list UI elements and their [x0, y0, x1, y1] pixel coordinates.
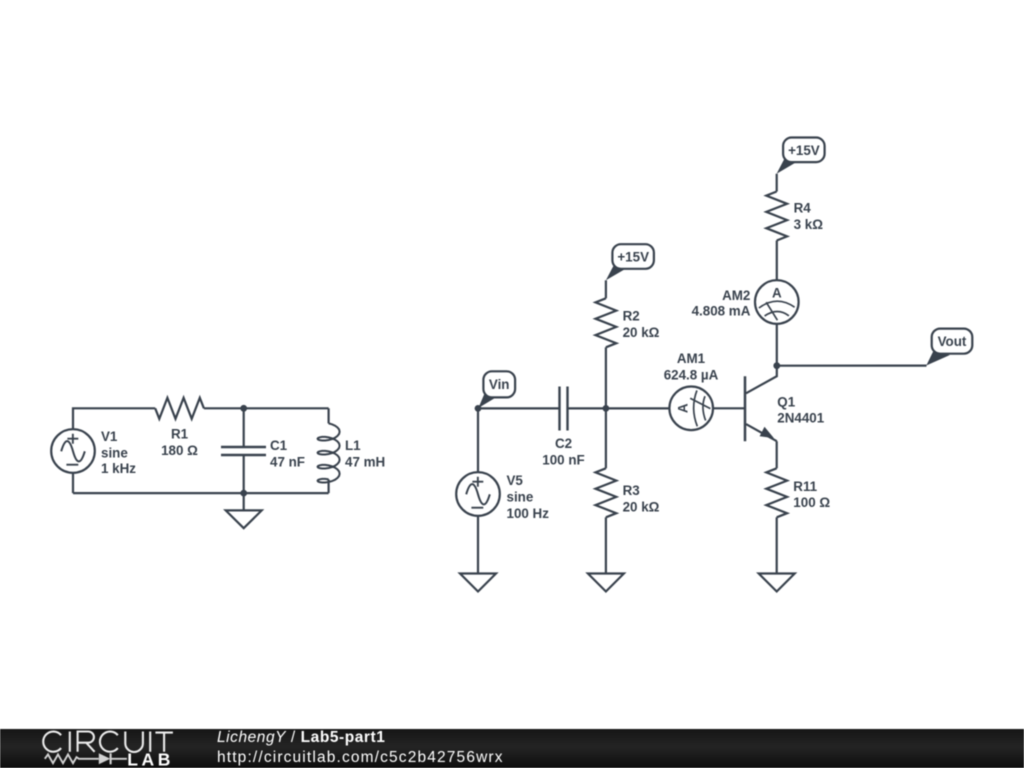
svg-text:R4: R4 [794, 201, 812, 216]
ground (R3) [588, 574, 624, 592]
label C2 value [542, 436, 584, 468]
svg-text:100 Ω: 100 Ω [793, 495, 830, 510]
label Q1 value [777, 395, 824, 426]
label V5 value [507, 473, 550, 521]
voltage source V1 [51, 429, 95, 473]
svg-text:A: A [676, 403, 691, 413]
wire V5 bottom [477, 516, 479, 574]
wire junction to R3 [605, 408, 607, 468]
footer bar [0, 729, 1024, 768]
svg-text:R2: R2 [623, 309, 640, 324]
wire collector to AM2 [776, 324, 778, 366]
label R3 value [623, 483, 660, 515]
resistor R4 [766, 192, 787, 241]
wire top-left V1 to R1 [73, 408, 155, 429]
node bottom junction dot [240, 490, 247, 497]
svg-text:R1: R1 [171, 427, 189, 442]
svg-text:LAB: LAB [127, 750, 174, 768]
wire R3 to ground [605, 517, 607, 573]
svg-text:R11: R11 [793, 479, 817, 494]
label L1 value [345, 438, 385, 470]
net flag Vout [926, 329, 972, 366]
svg-text:C1: C1 [270, 438, 288, 453]
voltage source V5 [456, 472, 500, 516]
svg-text:4.808 mA: 4.808 mA [692, 304, 751, 319]
ground (left circuit) [226, 493, 262, 528]
resistor R11 [766, 468, 787, 517]
svg-text:Vin: Vin [489, 377, 510, 392]
net flag Vin [478, 371, 515, 408]
inductor L1 [318, 408, 340, 493]
svg-text:V5: V5 [507, 473, 524, 488]
node Vin dot [475, 405, 482, 412]
svg-text:C2: C2 [555, 436, 572, 451]
svg-text:20 kΩ: 20 kΩ [623, 500, 660, 515]
svg-text:AM2: AM2 [722, 288, 750, 303]
svg-text:AM1: AM1 [677, 351, 706, 366]
CircuitLab logo wordmark [43, 732, 174, 768]
label C1 value [270, 438, 305, 470]
wire AM2 to R4 [776, 174, 778, 281]
logo resistor-diode squiggle [45, 753, 127, 764]
svg-text:R3: R3 [623, 483, 640, 498]
svg-text:sine: sine [507, 490, 534, 505]
svg-text:180 Ω: 180 Ω [161, 443, 198, 458]
label AM1 value [664, 351, 719, 382]
svg-text:A: A [772, 286, 782, 301]
svg-text:+15V: +15V [617, 250, 649, 265]
svg-text:Q1: Q1 [777, 395, 795, 410]
svg-text:47 mH: 47 mH [345, 455, 385, 470]
node collector junction dot [773, 362, 780, 369]
ammeter AM1 [669, 387, 713, 431]
label R1 value [161, 427, 198, 459]
svg-text:Vout: Vout [938, 334, 967, 349]
capacitor C1 [221, 408, 266, 493]
label R2 value [623, 309, 660, 341]
label V1 value [101, 429, 136, 476]
wire Vin to C2 [478, 407, 560, 409]
wire R1 to L1 top [204, 407, 329, 409]
svg-text:2N4401: 2N4401 [777, 410, 824, 425]
wire V5 top [477, 408, 479, 472]
svg-text:L1: L1 [345, 438, 361, 453]
wire flag to R2 [605, 280, 607, 298]
svg-text:47 nF: 47 nF [270, 455, 305, 470]
wire R11 to ground [776, 517, 778, 573]
wire junction to AM1 [606, 407, 670, 409]
resistor R3 [596, 468, 617, 517]
resistor R2 [596, 298, 617, 347]
node top junction dot [240, 405, 247, 412]
svg-text:+15V: +15V [788, 143, 820, 158]
wire AM1 to Q1 base [713, 407, 745, 409]
wire bottom rail [73, 492, 329, 494]
wire collector to Vout [777, 365, 927, 367]
svg-text:3 kΩ: 3 kΩ [794, 217, 824, 232]
wire V1 bottom [72, 473, 74, 493]
svg-text:sine: sine [101, 446, 128, 461]
label R11 value [793, 479, 830, 510]
svg-text:100 nF: 100 nF [542, 453, 584, 468]
capacitor C2 [560, 387, 606, 431]
ammeter AM2 [755, 280, 799, 324]
svg-text:1 kHz: 1 kHz [101, 461, 136, 476]
svg-text:V1: V1 [101, 429, 118, 444]
ground (R11) [759, 574, 795, 592]
svg-text:20 kΩ: 20 kΩ [623, 325, 660, 340]
transistor Q1 [745, 366, 777, 442]
power flag +15V (right) [777, 138, 825, 174]
wire R2 to junction [605, 347, 607, 408]
svg-text:100 Hz: 100 Hz [507, 506, 550, 521]
label AM2 value [692, 288, 751, 319]
ground (V5) [460, 574, 496, 592]
label R4 value [794, 201, 824, 233]
wire emitter to R11 [776, 441, 778, 468]
node C2-R2-R3 junction dot [603, 405, 610, 412]
resistor R1 [155, 398, 204, 419]
svg-text:624.8 µA: 624.8 µA [664, 367, 719, 382]
power flag +15V (left) [606, 244, 654, 280]
